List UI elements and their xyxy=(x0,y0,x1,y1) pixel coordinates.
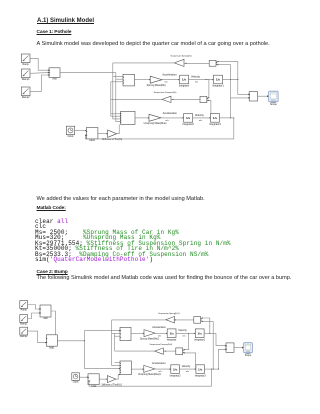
gain Suspension Damper(Bs) xyxy=(162,96,171,102)
gain Suspension Spring(Ks)1 xyxy=(166,316,175,323)
junction for bottom feedback xyxy=(233,117,234,118)
integrator I1 sprung velocity xyxy=(179,75,189,88)
svg-text:1/s: 1/s xyxy=(213,116,218,120)
gain Suspension Spring(Ks) xyxy=(174,59,184,66)
wire unsprung position to mux xyxy=(231,97,250,99)
wire sum5 to gain Mus1 xyxy=(131,368,143,370)
svg-text:Sprung Mass(Ms)1: Sprung Mass(Ms)1 xyxy=(140,338,160,340)
wire into sum1 in3 xyxy=(111,81,123,83)
wire unsprung position to spring sum xyxy=(216,64,231,66)
svg-text:Acceleration: Acceleration xyxy=(162,72,177,76)
svg-text:Suspension Spring(Ks): Suspension Spring(Ks) xyxy=(170,55,192,58)
unit label m/s sprung vel xyxy=(195,82,198,84)
svg-text:Ramp1: Ramp1 xyxy=(22,78,30,81)
junction unsprung position 2 xyxy=(213,369,214,370)
ramp source R4 xyxy=(20,301,28,312)
sum block spring difference xyxy=(209,60,217,66)
wire ramp R1 to Add xyxy=(30,58,49,71)
svg-text:Acceleration: Acceleration xyxy=(152,326,166,329)
wire spring2 feedback vertical xyxy=(112,320,120,366)
heading Matlab Code: xyxy=(37,207,66,212)
wire unsprung position vertical xyxy=(230,65,232,118)
wire into sum2 in1 xyxy=(111,113,121,115)
integrator I8 xyxy=(195,365,207,378)
wire sum3 to gain Kt xyxy=(98,133,108,135)
wire spring gain2 output left xyxy=(112,319,166,321)
sum block sum4 sprung forces xyxy=(120,327,131,340)
svg-text:Clock: Clock xyxy=(73,382,80,384)
label Velocity unsprung xyxy=(195,113,205,117)
svg-text:Integrator3: Integrator3 xyxy=(195,374,207,377)
unit label m/s unsprung vel xyxy=(199,120,202,122)
svg-text:m/s: m/s xyxy=(164,82,167,84)
paragraph case 2 xyxy=(37,276,292,282)
mux mux to scope 2 xyxy=(226,343,234,352)
wire AddA to AddB xyxy=(51,311,55,335)
label Suspension Spring(Ks)1 xyxy=(158,312,179,315)
scope Scope2 xyxy=(244,343,253,357)
wire into sum1 in1 xyxy=(113,76,123,78)
wire sprung position to mux xyxy=(238,80,249,95)
wire integrator1 to integrator2 xyxy=(189,79,214,81)
wire integrator3 to integrator4 xyxy=(193,117,211,119)
svg-text:1/s: 1/s xyxy=(173,367,178,371)
svg-text:Ramp: Ramp xyxy=(23,63,30,66)
wire R5 to AddA xyxy=(28,312,40,318)
scope Scope1 xyxy=(269,91,279,106)
svg-text:Scope: Scope xyxy=(245,355,252,357)
svg-text:Velocity: Velocity xyxy=(195,113,205,117)
wire gain Ms1 to integrator5 xyxy=(155,333,167,335)
wire sum6 to gain Kt1 xyxy=(99,378,107,380)
svg-text:Add1: Add1 xyxy=(49,346,55,349)
wire integrator6 output xyxy=(204,332,216,334)
svg-text:Integrator1: Integrator1 xyxy=(194,338,206,341)
wire mux2 to scope2 xyxy=(234,347,244,349)
junction road2 xyxy=(84,340,85,341)
svg-text:Stiffness of Tire(Kt)1: Stiffness of Tire(Kt)1 xyxy=(101,383,122,386)
svg-text:Integrator: Integrator xyxy=(167,338,177,341)
wire road vertical xyxy=(116,73,121,122)
svg-text:Ramp: Ramp xyxy=(21,310,28,312)
svg-text:m/s: m/s xyxy=(186,371,189,373)
label Suspension Damper(Bs) xyxy=(154,91,177,94)
svg-text:Integrator3: Integrator3 xyxy=(209,123,221,126)
label Acceleration unsprung xyxy=(163,111,178,115)
svg-text:m/s: m/s xyxy=(195,82,198,84)
wire road2 vertical xyxy=(84,331,86,369)
svg-text:Integrator2: Integrator2 xyxy=(170,374,182,377)
junction sprung position xyxy=(237,79,238,80)
junction unsprung position xyxy=(230,117,231,118)
wire sum2 to gain Mus xyxy=(135,117,149,119)
unit label 2b xyxy=(182,335,185,337)
wire AddB output xyxy=(57,340,84,342)
wire spring gain output left xyxy=(113,62,175,64)
junction unsprung velocity xyxy=(210,117,211,118)
ramp source R2 xyxy=(21,69,30,81)
integrator I5 xyxy=(167,329,177,342)
ramp source R6 xyxy=(20,327,28,338)
wire ramp R3 to Add xyxy=(30,74,49,91)
ramp source R1 xyxy=(21,54,30,66)
paragraph we added values xyxy=(37,197,205,203)
wire into sum5 in2 xyxy=(115,362,121,364)
sum block sum1 sprung forces xyxy=(123,74,135,86)
wire sprung position to spring sum xyxy=(216,61,238,80)
svg-text:Add1: Add1 xyxy=(89,139,95,142)
svg-text:m/s: m/s xyxy=(199,120,202,122)
svg-text:1/s: 1/s xyxy=(186,116,191,120)
sum block damper difference xyxy=(200,96,208,102)
wire into sum4 in3 xyxy=(115,335,121,337)
junction bottom feedback 2 xyxy=(211,369,212,370)
wire bottom feedback to sum3 xyxy=(85,118,234,139)
svg-text:1/s: 1/s xyxy=(198,367,203,371)
gain Unsprung Mass(Mus) xyxy=(144,114,167,125)
code block xyxy=(35,219,231,263)
wire unsprung position 2 to spring sum xyxy=(201,321,214,323)
wire spring sum2 to gain xyxy=(173,319,193,321)
svg-text:Velocity: Velocity xyxy=(182,365,191,368)
sum block sum6 tire 2 xyxy=(88,374,99,388)
gain Suspension Damper(Bs)1 xyxy=(155,348,164,354)
svg-text:m/s: m/s xyxy=(158,371,161,373)
heading A.1) Simulink Model xyxy=(37,18,94,24)
integrator I3 unsprung velocity xyxy=(182,114,194,127)
sum block bump Add A xyxy=(40,305,51,320)
arrow into scope xyxy=(267,95,269,97)
svg-text:Ramp2: Ramp2 xyxy=(20,336,28,338)
label Velocity sprung 2 xyxy=(178,329,187,332)
wire clock2 to sum6 xyxy=(79,376,88,378)
wire damper gain output left xyxy=(111,98,162,100)
gain Sprung Mass(Ms) xyxy=(147,76,166,87)
unit label 2d xyxy=(186,371,189,373)
paragraph case 1 xyxy=(37,42,270,48)
wire mux to scope xyxy=(258,95,269,97)
wire unsprung position 2 to mux xyxy=(219,349,227,370)
sum block road Add xyxy=(49,68,60,81)
heading Case 2: Bump xyxy=(37,271,68,276)
wire damper feedback vertical xyxy=(110,82,112,116)
wire into sum4 in2 xyxy=(112,332,120,334)
svg-text:Unsprung Mass(Mus)1: Unsprung Mass(Mus)1 xyxy=(138,374,162,376)
wire gain Mus to integrator3 xyxy=(161,117,184,119)
wire unsprung position 2 vertical xyxy=(212,321,214,369)
svg-text:Velocity: Velocity xyxy=(178,329,187,332)
unit label 2c xyxy=(158,371,161,373)
wire sprung velocity 2 to damper sum xyxy=(183,333,189,350)
svg-text:Unsprung Mass(Mus): Unsprung Mass(Mus) xyxy=(144,122,167,125)
wire damper2 feedback vertical xyxy=(114,333,116,351)
svg-text:Sprung Mass(Ms): Sprung Mass(Ms) xyxy=(147,84,166,87)
svg-text:Clock: Clock xyxy=(68,135,75,138)
wire integrator4 output xyxy=(220,117,234,119)
wire integrator8 output xyxy=(205,368,219,370)
sum block damper difference 2 xyxy=(176,348,184,355)
sum block sum5 unsprung forces xyxy=(120,361,131,375)
wire unsprung velocity 2 to damper sum xyxy=(183,352,196,369)
integrator I6 xyxy=(194,329,206,342)
wire damper sum to damper gain xyxy=(171,99,200,101)
svg-text:Integrator1: Integrator1 xyxy=(212,85,224,88)
ramp source R3 xyxy=(21,87,30,99)
wire sum1 to gain Ms xyxy=(135,79,151,81)
svg-text:Suspension Damper(Bs)1: Suspension Damper(Bs)1 xyxy=(150,343,173,346)
sum block sum3 tire xyxy=(86,128,98,142)
unit label m/s unsprung accel xyxy=(165,120,168,122)
wire gain Kt1 to sum5 xyxy=(116,374,120,379)
sum block sum2 unsprung forces xyxy=(121,111,136,124)
svg-text:m/s: m/s xyxy=(182,335,185,337)
svg-text:1/s: 1/s xyxy=(169,331,174,335)
svg-text:1/s: 1/s xyxy=(182,78,187,82)
svg-text:m/s: m/s xyxy=(165,120,168,122)
junction sprung position 2 xyxy=(209,333,210,334)
wire spring sum to spring gain xyxy=(184,63,209,65)
integrator I4 unsprung position xyxy=(209,114,221,127)
wire damper gain2 output left xyxy=(115,350,155,352)
svg-text:Integrator: Integrator xyxy=(179,85,189,88)
label Velocity sprung xyxy=(191,74,201,78)
svg-text:Integrator2: Integrator2 xyxy=(182,123,194,126)
wire R6 to AddB xyxy=(28,331,47,343)
label Suspension Spring(Ks) xyxy=(170,55,192,58)
svg-text:Ramp1: Ramp1 xyxy=(20,324,28,326)
junction 2b xyxy=(218,369,219,370)
wire gain Kt up to sum2 xyxy=(117,124,120,133)
wire R4 to AddA xyxy=(28,305,40,310)
wire sprung position 2 to spring sum xyxy=(201,317,210,333)
svg-text:m/s: m/s xyxy=(158,335,161,337)
svg-text:Suspension Spring(Ks)1: Suspension Spring(Ks)1 xyxy=(158,312,179,315)
svg-text:Stiffness of Tire(Kt): Stiffness of Tire(Kt) xyxy=(102,138,122,141)
label Velocity unsprung 2 xyxy=(182,365,191,368)
arrow into scope 2 xyxy=(242,347,244,349)
unit label m/s sprung accel xyxy=(164,82,167,84)
svg-text:1/s: 1/s xyxy=(216,78,221,82)
gain Stiffness of Tire(Kt)1 xyxy=(101,376,122,387)
wire sprung velocity to damper sum xyxy=(206,80,209,99)
ramp source R5 xyxy=(20,315,28,326)
label Acceleration unsprung 2 xyxy=(152,362,166,365)
wire damper sum2 to gain xyxy=(163,350,176,352)
wire gain Ms to integrator1 xyxy=(162,79,180,81)
heading Case 1: Pothole xyxy=(37,31,72,36)
integrator I2 sprung position xyxy=(212,75,224,88)
mux mux to scope xyxy=(249,92,257,101)
unit label 2a xyxy=(158,335,161,337)
wire integrator5 to integrator6 xyxy=(176,333,195,335)
gain Stiffness of Tire(Kt) xyxy=(102,130,122,141)
svg-text:Ramp2: Ramp2 xyxy=(22,96,30,99)
clock Clock1 xyxy=(66,126,74,138)
wire road2 to sum4 xyxy=(85,330,121,332)
sum block bump Add B xyxy=(46,335,57,350)
label Suspension Damper(Bs)1 xyxy=(150,343,173,346)
wire sprung position 2 to mux xyxy=(216,333,226,346)
svg-text:Acceleration: Acceleration xyxy=(152,362,166,365)
wire road signal to distribution xyxy=(60,72,116,74)
svg-text:Acceleration: Acceleration xyxy=(163,111,178,115)
wire integrator7 to integrator8 xyxy=(179,368,196,370)
svg-text:Add: Add xyxy=(43,317,48,320)
wire bottom feedback 2 to sum6 xyxy=(88,369,211,386)
wire road2 to sum5 xyxy=(85,368,121,370)
junction sprung velocity 2 xyxy=(188,333,189,334)
wire clock to sum3 xyxy=(75,130,87,132)
wire into sum1 in2 xyxy=(116,78,123,80)
svg-text:Scope: Scope xyxy=(270,103,277,106)
sum block spring difference 2 xyxy=(194,317,202,324)
clock Clock2 xyxy=(72,373,80,384)
label Acceleration sprung xyxy=(162,72,177,76)
wire into sum2 in2 xyxy=(111,115,121,117)
svg-text:Add: Add xyxy=(52,78,57,81)
svg-text:1/s: 1/s xyxy=(198,331,203,335)
svg-text:Velocity: Velocity xyxy=(191,74,201,78)
svg-text:Suspension Damper(Bs): Suspension Damper(Bs) xyxy=(154,91,177,94)
gain Sprung Mass(Ms)1 xyxy=(140,330,160,341)
integrator I7 xyxy=(170,365,182,378)
label Acceleration sprung 2 xyxy=(152,326,166,329)
wire gain Mus1 to integrator7 xyxy=(155,368,171,370)
junction sprung velocity xyxy=(205,79,206,80)
gain Unsprung Mass(Mus)1 xyxy=(138,365,162,376)
wire sum4 to gain Ms1 xyxy=(131,333,144,335)
wire spring feedback vertical xyxy=(113,63,121,119)
wire ramp R2 to Add xyxy=(30,72,49,74)
junction at integrator2 output xyxy=(230,79,231,80)
wire unsprung velocity to damper sum xyxy=(207,100,211,118)
